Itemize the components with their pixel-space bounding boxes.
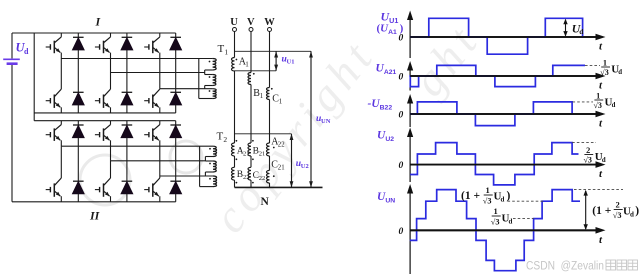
waveform -UB22	[410, 102, 572, 126]
svg-text:1: 1	[485, 185, 489, 195]
wire line W	[269, 32, 271, 88]
winding A21	[231, 140, 237, 156]
terminal V	[249, 28, 253, 32]
diode bridge I leg2 bottom	[121, 73, 133, 113]
dash UU2 level	[572, 142, 596, 144]
transformer T2 primary winding b	[205, 157, 216, 173]
label (1+1/sqrt3 Ud)	[461, 185, 511, 205]
igbt bridge II leg3 top	[144, 121, 160, 176]
transformer T2 primary winding c	[200, 172, 217, 187]
label 1/sqrt3 Ud wf5	[491, 206, 513, 226]
svg-text:1: 1	[603, 58, 607, 67]
transformer T2 primary winding a	[205, 146, 216, 156]
winding B21	[248, 140, 254, 156]
axis t UU1	[410, 34, 605, 53]
svg-text:1: 1	[279, 98, 283, 106]
waveform UA21	[409, 65, 585, 86]
svg-text:CSDN @Zevalin: CSDN @Zevalin	[526, 259, 604, 273]
wire T2 primary return	[199, 146, 201, 186]
axis y UU2	[407, 128, 413, 183]
svg-text:V: V	[247, 17, 255, 28]
svg-text:1: 1	[245, 61, 249, 69]
igbt bridge I leg1 top	[46, 33, 62, 59]
terminal U	[233, 28, 237, 32]
winding B22	[231, 158, 237, 183]
dash UUN level1 left	[513, 218, 534, 220]
igbt bridge I leg3 bottom	[144, 89, 160, 113]
diode bridge II leg1 bottom	[73, 146, 85, 202]
wire phase V bridge I	[111, 72, 205, 74]
watermark copyright diagonal	[203, 13, 490, 241]
igbt bridge I leg2 top	[95, 33, 111, 73]
svg-text:1: 1	[224, 47, 228, 56]
svg-text:0: 0	[399, 227, 404, 237]
svg-text:d: d	[612, 102, 616, 109]
diode bridge I leg1 bottom	[73, 59, 85, 113]
svg-text:d: d	[602, 157, 606, 164]
diode bridge II leg1 top	[73, 121, 85, 147]
diode bridge II leg3 top	[170, 121, 182, 176]
arrow uU2	[290, 134, 294, 188]
svg-text:√3: √3	[600, 68, 608, 77]
wire phase W bridge II	[160, 175, 213, 177]
wire bus II top	[34, 120, 176, 122]
dash UB22 level	[573, 101, 594, 103]
arrow Ud amplitude	[563, 19, 567, 37]
svg-text:U2: U2	[301, 163, 309, 170]
winding B1	[248, 73, 255, 85]
svg-text:): )	[635, 205, 639, 217]
svg-text:√3: √3	[613, 211, 622, 220]
axis y UU1	[407, 11, 413, 59]
label (1+2/sqrt3 Ud)	[592, 200, 639, 220]
svg-text:U1: U1	[287, 59, 295, 66]
axis t UA21	[410, 73, 605, 92]
svg-text:21: 21	[259, 151, 266, 158]
wire bus I top	[12, 32, 176, 34]
watermark circles	[170, 141, 202, 173]
waveform UUN	[410, 190, 580, 271]
igbt bridge II leg2 bottom	[95, 161, 111, 202]
waveform UU2	[410, 143, 578, 185]
winding A1	[232, 58, 238, 72]
diode bridge II leg2 bottom	[121, 161, 133, 202]
igbt bridge II leg3 bottom	[144, 176, 160, 202]
dc source Ud battery	[3, 59, 20, 63]
measure line uU1 top	[235, 50, 312, 52]
terminal W	[268, 28, 272, 32]
svg-text:0: 0	[399, 111, 404, 121]
svg-text:0: 0	[399, 161, 404, 171]
wire bus I bottom	[34, 112, 176, 114]
diode bridge I leg1 top	[73, 33, 85, 59]
wire dc left	[11, 33, 13, 58]
arrow uUN	[309, 51, 313, 187]
svg-text:N: N	[261, 196, 270, 208]
diode bridge I leg3 top	[170, 33, 182, 89]
wire phase W bridge I	[160, 88, 213, 90]
arrow (1+2/sqrt3)Ud amplitude	[584, 190, 588, 230]
svg-text:22: 22	[278, 142, 285, 149]
winding C21	[266, 170, 274, 183]
wire N bus	[235, 186, 323, 188]
axis y UB22	[407, 94, 413, 127]
igbt bridge II leg1 bottom	[46, 146, 62, 202]
svg-text:21: 21	[278, 165, 285, 172]
svg-text:II: II	[89, 209, 101, 223]
wire left rail	[33, 33, 35, 121]
svg-text:2: 2	[223, 135, 227, 144]
wire phase U bridge I	[61, 58, 212, 60]
svg-text:U: U	[230, 17, 238, 28]
transformer T1 primary winding b	[205, 70, 216, 86]
axis y UUN	[407, 184, 413, 274]
dash UA21 level	[585, 64, 600, 66]
axis t UUN	[410, 227, 605, 246]
measure line uU1 bottom	[235, 70, 277, 72]
igbt bridge I leg1 bottom	[46, 59, 62, 113]
wire bus II bottom	[12, 201, 176, 203]
winding C1	[267, 88, 273, 100]
igbt bridge II leg1 top	[46, 121, 62, 147]
svg-text:1: 1	[260, 92, 264, 100]
svg-text:d: d	[24, 47, 29, 56]
svg-text:0: 0	[399, 73, 404, 83]
axis y UA21	[407, 61, 413, 91]
wire phase V bridge II	[111, 160, 206, 162]
svg-text:d: d	[501, 195, 505, 203]
svg-text:): )	[507, 190, 511, 202]
svg-text:d: d	[618, 69, 622, 76]
dash UUN level2 left	[508, 200, 544, 202]
svg-text:√3: √3	[594, 101, 602, 110]
waveform UU1	[410, 18, 583, 54]
diode bridge II leg2 top	[121, 121, 133, 161]
svg-text:1: 1	[493, 206, 497, 216]
winding C22	[248, 158, 254, 183]
svg-text:2: 2	[615, 200, 619, 210]
svg-text:(1 +: (1 +	[461, 190, 480, 202]
igbt bridge I leg3 top	[144, 33, 160, 89]
wire line U	[234, 32, 236, 58]
axis t UB22	[410, 111, 605, 130]
wire line V	[250, 32, 252, 73]
svg-text:1: 1	[596, 91, 600, 100]
dash UUN level3 right	[574, 189, 623, 191]
svg-text:UN: UN	[321, 118, 331, 125]
svg-text:√3: √3	[491, 217, 500, 226]
svg-text:(1 +: (1 +	[592, 205, 611, 217]
igbt bridge I leg2 bottom	[95, 73, 111, 113]
transformer T1 primary winding c	[199, 86, 216, 99]
wire T1 primary return	[198, 59, 200, 99]
svg-text:22: 22	[259, 175, 266, 182]
diode bridge I leg2 top	[121, 33, 133, 73]
svg-text:d: d	[630, 210, 634, 218]
svg-text:2: 2	[586, 146, 590, 155]
svg-text:√3: √3	[584, 156, 592, 165]
svg-text:√3: √3	[483, 196, 492, 205]
diode bridge II leg3 bottom	[170, 176, 182, 202]
svg-text:W: W	[264, 17, 275, 28]
svg-text:d: d	[509, 217, 513, 225]
measure line uU2 top	[235, 133, 292, 135]
transformer T1 primary winding a	[205, 59, 217, 71]
winding A22	[266, 143, 274, 156]
axis overdraw	[410, 37, 597, 230]
igbt bridge II leg2 top	[95, 121, 111, 161]
axis t UU2	[410, 161, 605, 180]
svg-text:0: 0	[399, 34, 404, 44]
wire phase U bridge II	[61, 145, 213, 147]
arrow uU1	[274, 51, 278, 71]
diode bridge I leg3 bottom	[170, 89, 182, 113]
